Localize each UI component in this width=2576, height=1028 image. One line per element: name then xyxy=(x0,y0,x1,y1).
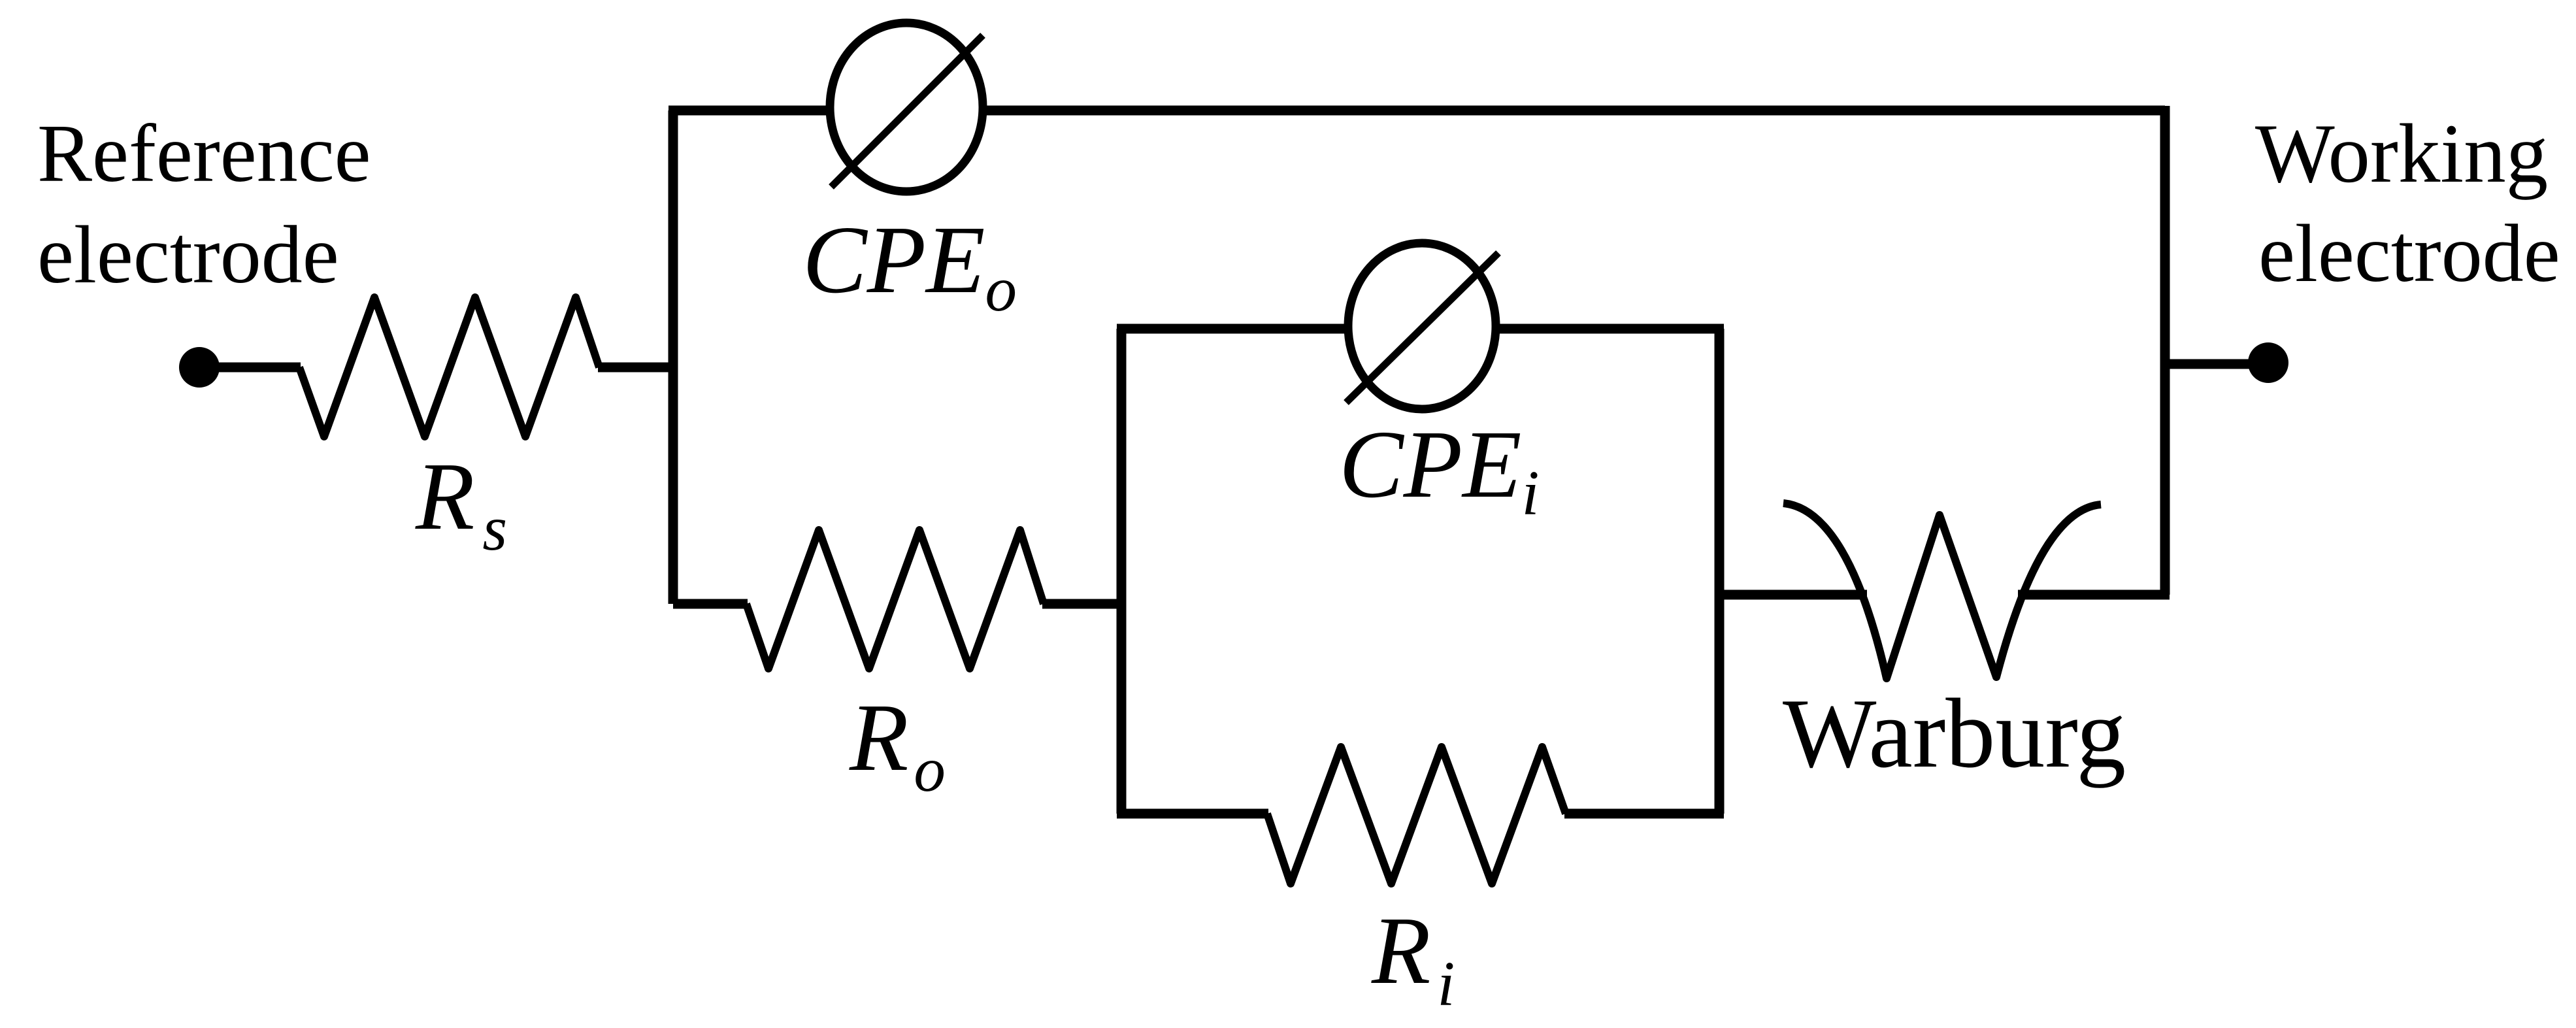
wire: inner box bottom left segment xyxy=(1117,809,1268,819)
wire: reference terminal to Rs xyxy=(199,363,301,373)
CPE CPEi circle xyxy=(1348,243,1496,409)
wire: inner box left vertical xyxy=(1117,329,1127,814)
Warburg element xyxy=(1783,503,2101,678)
svg-text:Ri: Ri xyxy=(1371,897,1455,1019)
CPE CPEi diagonal line xyxy=(1346,253,1498,403)
wire: Rs to junction node xyxy=(598,363,673,373)
svg-text:Reference: Reference xyxy=(37,108,371,199)
label: Working electrode xyxy=(2255,107,2560,299)
wire: Ro to inner box xyxy=(1042,599,1121,609)
wire: top branch right (CPEo to right vertical) xyxy=(985,106,2165,116)
wire: junction to Ro xyxy=(673,599,748,609)
svg-text:CPEo: CPEo xyxy=(802,207,1017,324)
CPE CPEo circle xyxy=(830,23,983,191)
svg-text:Warburg: Warburg xyxy=(1783,678,2126,788)
resistor R_s xyxy=(299,297,599,437)
wire: Warburg to right vertical xyxy=(2018,590,2170,600)
wire: inner box top left segment xyxy=(1117,324,1345,334)
terminal dot (working electrode) xyxy=(2248,342,2288,383)
wire: junction vertical (node A) xyxy=(669,110,678,604)
resistor R_o xyxy=(746,530,1044,669)
wire: inner box top right segment xyxy=(1499,324,1724,334)
CPE CPEo diagonal line xyxy=(831,35,983,187)
svg-text:Ro: Ro xyxy=(849,684,946,804)
svg-text:electrode: electrode xyxy=(2258,208,2560,299)
wire: inner box to Warburg xyxy=(1719,590,1867,600)
terminal dot (reference electrode) xyxy=(179,347,220,388)
wire: inner box right vertical xyxy=(1715,329,1725,814)
label: Reference electrode xyxy=(37,108,371,301)
svg-text:electrode: electrode xyxy=(37,210,339,301)
wire: top branch left (junction to CPEo) xyxy=(669,106,827,116)
svg-text:Working: Working xyxy=(2255,107,2548,200)
svg-text:CPEi: CPEi xyxy=(1339,411,1539,528)
wire: working electrode stub xyxy=(2165,359,2251,369)
resistor R_i xyxy=(1267,747,1566,884)
svg-text:Rs: Rs xyxy=(415,443,507,563)
wire: inner box bottom right segment xyxy=(1564,809,1724,819)
wire: right vertical xyxy=(2160,106,2170,595)
